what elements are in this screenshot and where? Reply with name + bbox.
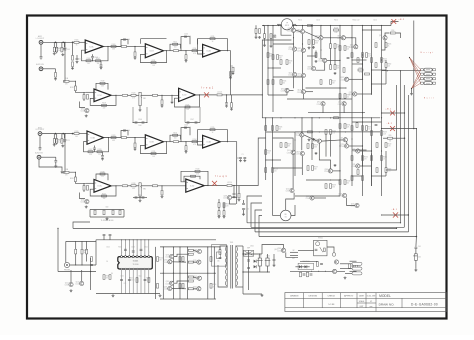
- svg-text:06.JUL.1989: 06.JUL.1989: [367, 295, 376, 297]
- rail x293 stub top: [293, 26, 295, 29]
- svg-text:C2240: C2240: [163, 262, 167, 264]
- rail 381: [381, 26, 383, 105]
- svg-text:47U: 47U: [65, 174, 68, 176]
- svg-text:4.7K: 4.7K: [196, 174, 199, 176]
- ground: [53, 52, 55, 53]
- svg-text:47U: 47U: [65, 83, 68, 85]
- feedback box A2 bottom close: [140, 39, 142, 44]
- svg-text:C106: C106: [138, 119, 142, 121]
- wire B1 out: [111, 94, 122, 96]
- svg-text:IC3D: IC3D: [190, 185, 195, 187]
- title scale row line: [357, 302, 376, 304]
- svg-text:10K: 10K: [186, 109, 189, 111]
- inductor L3 series: [227, 185, 232, 187]
- feedback sub loop: [80, 102, 86, 108]
- title row line 1: [285, 297, 447, 299]
- op-amp U1A: [85, 40, 103, 53]
- transistor Q612: [334, 260, 338, 264]
- svg-text:Q415: Q415: [339, 138, 343, 140]
- op-amp U3B: [145, 135, 163, 149]
- resistor R108: [122, 46, 127, 48]
- svg-text:220: 220: [274, 171, 277, 173]
- cluster right rc: [349, 264, 351, 269]
- svg-text:R-CH INPUT: R-CH INPUT: [36, 129, 45, 131]
- resistor R112 gnd: [185, 50, 186, 51]
- resistor R324 top: [96, 174, 108, 180]
- svg-text:R403: R403: [388, 168, 392, 170]
- capacitor C30B input: [64, 171, 70, 173]
- svg-text:E u r i t: E u r i t: [424, 96, 434, 99]
- title col line a: [303, 293, 305, 308]
- svg-text:47K: 47K: [383, 61, 386, 63]
- wire crossed 2: [382, 128, 417, 130]
- svg-text:10K: 10K: [152, 156, 155, 158]
- svg-text:C2240: C2240: [297, 50, 301, 52]
- ground: [62, 53, 64, 54]
- IC601 amplifier IC body: [118, 257, 153, 269]
- loop h4 left leg: [255, 210, 262, 232]
- svg-text:Q721: Q721: [297, 73, 301, 75]
- svg-text:R620: R620: [118, 246, 122, 248]
- svg-text:TP: TP: [286, 23, 288, 25]
- svg-text:C61: C61: [124, 283, 127, 285]
- svg-text:R109: R109: [112, 44, 116, 46]
- svg-text:IC4A: IC4A: [206, 141, 211, 144]
- filter cap C601: [258, 258, 261, 266]
- loop h5 left leg: [259, 216, 262, 237]
- transistor Q121: [343, 138, 347, 142]
- rectifier wires: [243, 253, 262, 255]
- feedback box A3 left close: [197, 39, 199, 45]
- red X mark channel R: [212, 181, 217, 186]
- wire C1 out: [104, 137, 121, 139]
- transistor Q111: [293, 72, 297, 76]
- svg-text:E u r i g t: E u r i g t: [421, 51, 434, 54]
- speaker terminal SP2: [290, 255, 298, 257]
- caps above rail: [103, 233, 106, 235]
- connector J3 jack row3: [38, 132, 42, 136]
- bottom rail: [96, 293, 160, 295]
- svg-text:R302: R302: [388, 63, 392, 65]
- resistor R131 shunt: [231, 95, 233, 103]
- svg-text:+B.2: +B.2: [398, 19, 405, 21]
- resistor R120: [74, 86, 76, 91]
- svg-text:L2.C10: L2.C10: [217, 92, 222, 94]
- svg-text:R629: R629: [314, 144, 318, 146]
- feedback box B2: [175, 95, 200, 107]
- wires upper interconnect: [293, 32, 295, 47]
- svg-text:IC1A: IC1A: [89, 45, 94, 48]
- svg-text:IC601: IC601: [133, 261, 139, 263]
- svg-text:R118: R118: [102, 103, 106, 105]
- svg-text:Q513: Q513: [76, 281, 80, 283]
- svg-text:47K: 47K: [106, 278, 109, 280]
- svg-text:Q519: Q519: [307, 66, 311, 68]
- svg-text:C2240: C2240: [340, 146, 344, 148]
- transistor Q112: [301, 73, 305, 77]
- svg-text:R111: R111: [152, 60, 156, 62]
- svg-text:C62: C62: [418, 257, 421, 259]
- svg-text:33K: 33K: [103, 198, 106, 200]
- svg-text:Q718: Q718: [341, 144, 345, 146]
- svg-text:DRAW NO.: DRAW NO.: [379, 302, 395, 306]
- svg-text:2.2K: 2.2K: [388, 171, 391, 173]
- svg-text:C2240: C2240: [307, 69, 311, 71]
- transistor Q109: [323, 58, 327, 62]
- relay contact parts: [315, 248, 318, 250]
- resistor R588: [385, 33, 390, 36]
- svg-text:Q225: Q225: [349, 92, 353, 94]
- rectifier bottom wire: [243, 293, 262, 295]
- ground: [415, 269, 417, 270]
- svg-text:1000: 1000: [138, 125, 141, 127]
- capacitor C112 shunt: [226, 94, 227, 95]
- svg-text:Q816: Q816: [166, 254, 170, 256]
- resistor R214 feedback: [210, 129, 215, 131]
- transistor Q126: [328, 169, 332, 173]
- power rail bus top: [262, 25, 391, 27]
- svg-text:C2240: C2240: [223, 198, 227, 200]
- wire: [415, 260, 417, 269]
- svg-text:SP: SP: [292, 250, 294, 252]
- svg-text:R114: R114: [193, 48, 197, 50]
- title block outline: [285, 293, 447, 312]
- svg-text:6.8K: 6.8K: [112, 140, 115, 142]
- svg-text:D601: D601: [250, 246, 254, 248]
- rectifier lines: [242, 246, 244, 294]
- feedback loop h5: [259, 236, 416, 238]
- vertical bus x230: [230, 66, 232, 95]
- transistor Q610: [197, 287, 201, 291]
- connector CN1 pin 1: [421, 69, 424, 71]
- svg-text:R457: R457: [279, 55, 283, 57]
- svg-text:R659: R659: [315, 40, 319, 42]
- svg-text:R514 0.22: R514 0.22: [353, 20, 360, 22]
- red X mark channel L: [204, 92, 209, 97]
- svg-text:1K: 1K: [212, 41, 214, 43]
- capacitor C312 shunt: [233, 185, 234, 186]
- rail 362: [362, 26, 364, 105]
- svg-text:C2240: C2240: [285, 191, 289, 193]
- red X +B2 top: [391, 19, 396, 24]
- snubber rc 1: [300, 272, 302, 277]
- svg-text:560: 560: [87, 63, 90, 65]
- svg-text:C2240: C2240: [287, 152, 291, 154]
- svg-text:TL2030: TL2030: [132, 264, 138, 266]
- red fan lines upper: [410, 58, 421, 70]
- wire A3 out to bus: [220, 51, 230, 66]
- svg-text:R106: R106: [87, 58, 91, 60]
- transistor Q103: [300, 29, 304, 33]
- title col line d: [356, 293, 358, 308]
- IC601 pin wires up: [121, 240, 123, 256]
- svg-text:R237: R237: [314, 166, 318, 168]
- svg-text:C105: C105: [184, 34, 188, 36]
- svg-text:R100: R100: [337, 44, 341, 46]
- svg-text:6.8K: 6.8K: [332, 187, 335, 189]
- wire crossed 3: [382, 214, 409, 216]
- IC601 pin bumps bottom: [121, 268, 123, 270]
- wire A1 feedback loop: [82, 47, 109, 61]
- vertical bus x400: [400, 71, 402, 223]
- svg-text:L3.C10: L3.C10: [227, 182, 232, 184]
- svg-text:Q228: Q228: [223, 195, 227, 197]
- feedback loop h3: [251, 226, 404, 228]
- vertical bus x408: [408, 95, 410, 232]
- capacitor C101 shunt pair: [61, 42, 63, 47]
- psu small caps: [273, 258, 276, 260]
- svg-text:Q124: Q124: [297, 90, 301, 92]
- svg-text:R332: R332: [368, 126, 372, 128]
- rail x302 lower stub: [301, 118, 303, 133]
- wire pot to B2: [141, 94, 152, 96]
- rc parallel coupling: [170, 44, 181, 51]
- svg-text:C2240: C2240: [295, 135, 299, 137]
- wire jack bus: [70, 264, 96, 266]
- varistor: [332, 253, 336, 257]
- svg-text:1K: 1K: [388, 46, 390, 48]
- relay RY601 box: [314, 240, 327, 256]
- svg-text:R127: R127: [89, 149, 93, 151]
- caps at bus236: [237, 157, 239, 159]
- svg-text:100: 100: [388, 66, 391, 68]
- svg-text:R320: R320: [70, 178, 74, 180]
- svg-text:Q424: Q424: [338, 193, 342, 195]
- svg-text:R623: R623: [58, 139, 62, 141]
- feedback box D2 outer: [181, 171, 208, 185]
- wire to D1: [86, 182, 94, 184]
- svg-text:C2240: C2240: [296, 154, 300, 156]
- ripple resistors: [188, 249, 193, 251]
- svg-text:C2240: C2240: [351, 166, 355, 168]
- resistor R209 gnd: [134, 138, 136, 143]
- IC601 pin wires down: [121, 270, 123, 294]
- ground B2: [171, 95, 173, 101]
- rail x381 continuous: [381, 104, 383, 118]
- svg-text:IC2A: IC2A: [206, 50, 211, 53]
- wire relay left: [286, 252, 298, 257]
- transistor Q125: [356, 149, 360, 153]
- wire jack tail: [39, 136, 41, 148]
- resistor R128: [153, 94, 158, 96]
- svg-text:Q822: Q822: [341, 77, 345, 79]
- lower link y122: [352, 121, 382, 123]
- power transistor Q132 case: [280, 210, 291, 221]
- svg-text:L-CH INPUT: L-CH INPUT: [36, 38, 45, 40]
- feedback box A2: [141, 51, 167, 63]
- ground stub: [411, 89, 413, 93]
- svg-text:R134: R134: [193, 139, 197, 141]
- resistor R207: [111, 137, 116, 139]
- svg-text:10K: 10K: [152, 65, 155, 67]
- connector CN602 pill 1: [352, 262, 362, 265]
- svg-text:R128: R128: [98, 149, 102, 151]
- svg-text:C2240: C2240: [316, 104, 320, 106]
- svg-text:R558: R558: [289, 60, 293, 62]
- resistor R109 gnd: [134, 47, 136, 52]
- wire to A3: [186, 50, 203, 52]
- connector CN1 pin 2: [421, 73, 424, 75]
- svg-text:C30B: C30B: [64, 169, 68, 171]
- svg-text:C100: C100: [126, 130, 130, 132]
- svg-text:Q421: Q421: [164, 286, 168, 288]
- vertical bus x404: [403, 85, 405, 227]
- resistor bank lower: [265, 126, 267, 131]
- svg-text:R302: R302: [58, 48, 62, 50]
- ground: [70, 289, 72, 290]
- svg-text:RY601: RY601: [318, 238, 323, 240]
- svg-text:100: 100: [368, 129, 371, 131]
- feedback loop h1: [73, 227, 397, 229]
- rectifier block: [244, 250, 254, 256]
- lower fill rc 1: [376, 168, 378, 173]
- title col line c: [340, 293, 342, 308]
- resistor R211: [174, 141, 179, 143]
- svg-text:6.8K: 6.8K: [315, 43, 318, 45]
- op-amp U2B: [179, 88, 196, 101]
- loop h3 left leg: [251, 203, 262, 227]
- volume pot VR1: [136, 94, 139, 96]
- transistor Q604: [168, 260, 172, 264]
- snub caps: [247, 259, 250, 261]
- red X -B1: [393, 212, 398, 217]
- svg-text:C620: C620: [120, 276, 124, 278]
- coupling C104: [116, 46, 121, 48]
- rails lower: [265, 118, 267, 180]
- volume pot VR2: [136, 185, 139, 187]
- upper link y56: [307, 55, 316, 57]
- resistor R326: [123, 185, 128, 187]
- vertical bus x416: [415, 129, 417, 237]
- resistor R111: [174, 50, 179, 52]
- title col line g: [401, 298, 403, 307]
- regulator transistor Q611: [281, 248, 285, 252]
- resistor R213: [192, 141, 197, 143]
- svg-text:R106: R106: [283, 80, 287, 82]
- svg-text:DATE: DATE: [359, 294, 365, 297]
- upper fill rc 1: [264, 34, 266, 39]
- svg-text:C2240: C2240: [305, 198, 309, 200]
- lower res fill: [356, 123, 358, 128]
- svg-text:220: 220: [98, 154, 101, 156]
- svg-text:6.8K: 6.8K: [335, 32, 338, 34]
- transistor Q110: [311, 66, 315, 70]
- speaker terminal SP1: [290, 251, 298, 253]
- rc parallel: [170, 135, 181, 142]
- diode D602: [254, 265, 257, 268]
- wire Q101 leads: [277, 23, 281, 25]
- svg-text:-B.2: -B.2: [387, 123, 393, 125]
- wire upper-lower link: [308, 112, 365, 114]
- svg-text:C61: C61: [418, 246, 421, 248]
- svg-text:MODEL: MODEL: [379, 294, 391, 298]
- svg-text:6.8K: 6.8K: [112, 49, 115, 51]
- svg-text:C510: C510: [126, 39, 130, 41]
- svg-text:Q926: Q926: [277, 248, 281, 250]
- lower fill diag: [346, 142, 348, 144]
- wire J3 to C1: [42, 133, 73, 135]
- wire J1 to A1: [43, 41, 73, 43]
- svg-text:R140: R140: [196, 169, 200, 171]
- capacitor C615: [415, 237, 418, 247]
- svg-text:R131: R131: [152, 151, 156, 153]
- supply rail top: [96, 239, 216, 241]
- svg-text:47K: 47K: [159, 260, 162, 262]
- lower fill rc 2: [357, 170, 359, 175]
- wire to C2: [135, 137, 145, 139]
- resistor R127: [131, 94, 136, 96]
- bottom-left bus: [58, 271, 96, 273]
- bridge diagonals: [245, 251, 253, 255]
- resistor R205 feedback: [88, 151, 93, 153]
- capacitor C203: [102, 152, 104, 156]
- svg-text:C306: C306: [138, 194, 142, 196]
- svg-text:R129: R129: [112, 135, 116, 137]
- svg-text:C415: C415: [131, 280, 135, 282]
- svg-text:R58: R58: [391, 30, 394, 32]
- svg-text:4R8 32: 4R8 32: [285, 25, 290, 27]
- svg-text:R110: R110: [359, 67, 363, 69]
- transistor Q115: [301, 90, 305, 94]
- transistor Q129: [310, 196, 314, 200]
- ripple wires: [174, 254, 188, 256]
- sub loop: [80, 193, 86, 199]
- svg-text:C504: C504: [66, 49, 70, 51]
- svg-text:C10B: C10B: [64, 78, 68, 80]
- rail 340: [339, 26, 341, 105]
- svg-text:R255: R255: [213, 284, 217, 286]
- bus extra dots: [263, 25, 264, 26]
- op-amp U3C: [203, 135, 221, 148]
- connector J2 second jack: [39, 67, 43, 71]
- ground: [85, 115, 87, 116]
- svg-text:f r e q 1: f r e q 1: [215, 175, 228, 178]
- resistor R103 series: [73, 41, 75, 43]
- svg-text:R231: R231: [347, 124, 351, 126]
- rail x312 upper: [311, 26, 313, 67]
- wire headphone feed: [66, 240, 96, 242]
- zener pair row: [295, 266, 309, 268]
- capacitor C106 row: [133, 122, 147, 124]
- vertical bus x396: [386, 85, 397, 170]
- loop h1 left leg: [73, 222, 90, 228]
- svg-text:220: 220: [267, 153, 270, 155]
- ripple bus top: [160, 246, 216, 248]
- wire top rail redX: [391, 22, 399, 26]
- resistor R105 feedback: [86, 60, 91, 62]
- bus lower second: [295, 131, 380, 133]
- rail 371: [371, 26, 373, 96]
- svg-text:IC3A: IC3A: [90, 137, 95, 140]
- ground: [85, 206, 87, 207]
- left verticals IC area: [90, 258, 92, 290]
- transistor Q608: [168, 286, 172, 290]
- wire A2 out: [163, 50, 173, 52]
- resistor R330 feedback: [195, 170, 200, 172]
- svg-text:R626: R626: [146, 278, 150, 280]
- svg-text:5-7-88: 5-7-88: [328, 304, 335, 306]
- 600ohm pad block: [90, 209, 124, 211]
- upper horizontal y99 ext: [287, 98, 303, 100]
- svg-text:560: 560: [347, 183, 350, 185]
- upper fill rc 2: [375, 63, 377, 68]
- svg-text:100: 100: [347, 49, 350, 51]
- junction dots extra: [311, 25, 312, 26]
- svg-text:Q923: Q923: [281, 88, 285, 90]
- wire relay right: [327, 247, 334, 253]
- resistor R106 feedback: [96, 60, 101, 62]
- resistor R206 feedback: [97, 151, 102, 153]
